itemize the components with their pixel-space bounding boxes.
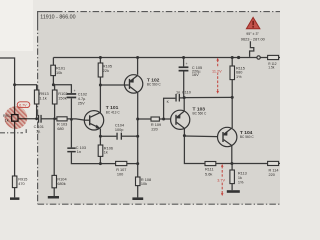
svg-text:11.2V: 11.2V bbox=[212, 69, 222, 73]
svg-text:1.1k: 1.1k bbox=[39, 96, 46, 100]
svg-text:C104: C104 bbox=[115, 124, 125, 128]
svg-text:4.7µ: 4.7µ bbox=[78, 97, 86, 101]
svg-text:9623 - 287.00: 9623 - 287.00 bbox=[241, 36, 266, 41]
svg-text:1n: 1n bbox=[77, 150, 81, 154]
svg-text:25V: 25V bbox=[78, 102, 85, 106]
svg-text:220: 220 bbox=[269, 173, 275, 177]
svg-text:R111: R111 bbox=[205, 168, 214, 172]
svg-text:R 107: R 107 bbox=[116, 168, 126, 172]
svg-text:220: 220 bbox=[151, 127, 157, 131]
svg-text:R 103: R 103 bbox=[57, 123, 67, 127]
svg-text:R 114: R 114 bbox=[269, 169, 280, 173]
svg-text:1n: 1n bbox=[176, 90, 180, 94]
svg-text:11910 - 866.00: 11910 - 866.00 bbox=[40, 15, 75, 21]
svg-text:BC 560 C: BC 560 C bbox=[193, 112, 208, 116]
svg-text:1k: 1k bbox=[238, 176, 242, 180]
svg-text:C102: C102 bbox=[78, 93, 87, 97]
svg-text:1.5k: 1.5k bbox=[268, 66, 274, 70]
svg-text:R102: R102 bbox=[58, 92, 67, 96]
svg-text:BC 413 C: BC 413 C bbox=[106, 110, 121, 114]
svg-text:680: 680 bbox=[57, 127, 63, 131]
svg-text:6.7V: 6.7V bbox=[19, 104, 27, 108]
svg-text:150k: 150k bbox=[58, 96, 66, 100]
svg-text:100p: 100p bbox=[115, 128, 124, 132]
svg-text:+: + bbox=[74, 89, 76, 93]
svg-text:680k: 680k bbox=[57, 182, 65, 186]
svg-text:10k: 10k bbox=[56, 71, 62, 75]
svg-text:BC 560 C: BC 560 C bbox=[147, 83, 162, 87]
svg-text:C 101: C 101 bbox=[34, 125, 44, 129]
svg-text:1k: 1k bbox=[5, 118, 9, 122]
svg-text:16V: 16V bbox=[192, 73, 199, 77]
svg-text:5.6k: 5.6k bbox=[205, 172, 212, 176]
svg-text:1%: 1% bbox=[238, 180, 244, 184]
svg-text:R104: R104 bbox=[57, 178, 67, 182]
svg-text:470: 470 bbox=[18, 182, 24, 186]
svg-text:R915: R915 bbox=[18, 178, 27, 182]
svg-text:1%: 1% bbox=[236, 75, 242, 79]
svg-text:+: + bbox=[186, 62, 188, 66]
svg-text:100: 100 bbox=[117, 173, 123, 177]
svg-text:C110: C110 bbox=[182, 91, 191, 95]
svg-text:3.7V: 3.7V bbox=[217, 178, 225, 182]
svg-text:22k: 22k bbox=[103, 69, 109, 73]
svg-text:BC 560 C: BC 560 C bbox=[240, 135, 255, 139]
svg-text:10k: 10k bbox=[141, 182, 147, 186]
svg-text:R101: R101 bbox=[56, 66, 65, 70]
svg-text:R105: R105 bbox=[103, 64, 112, 68]
svg-text:1k: 1k bbox=[104, 150, 108, 154]
svg-text:R913: R913 bbox=[39, 92, 48, 96]
svg-text:R113: R113 bbox=[238, 172, 247, 176]
